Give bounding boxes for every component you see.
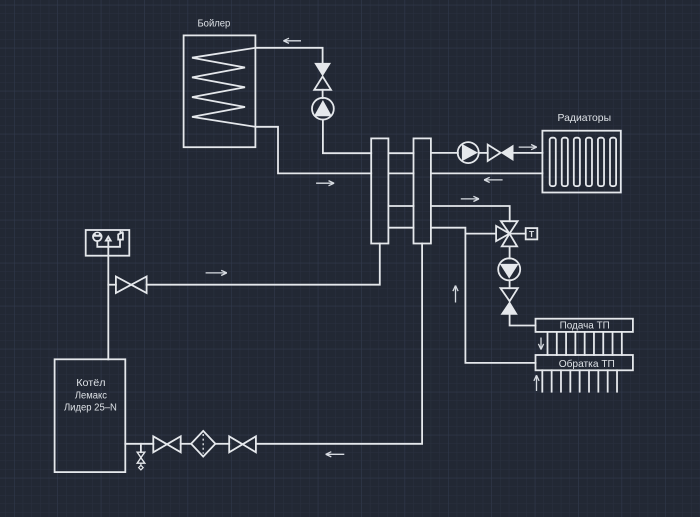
flow arrow (up) on floor return riser bbox=[453, 286, 458, 303]
flow arrow (right) on fill line bbox=[206, 270, 227, 275]
wire valve V2 to radiator bbox=[514, 152, 543, 154]
wire branch to fill valve bbox=[108, 284, 116, 286]
supply manifold outlets bbox=[548, 332, 622, 355]
wire separator to floor return drop bbox=[431, 228, 536, 363]
flow arrow (up) at return manifold bbox=[534, 375, 539, 391]
pump P2 circle bbox=[458, 142, 479, 163]
svg-text:Радиаторы: Радиаторы bbox=[558, 113, 612, 124]
safety valve arrow bbox=[106, 237, 111, 247]
label boiler unit "Котёл Лемакс Лидер 25-N" bbox=[64, 378, 117, 413]
flow arrow (down) at supply manifold bbox=[538, 338, 543, 350]
svg-text:Лидер 25–N: Лидер 25–N bbox=[64, 402, 117, 413]
wire valve V3 to supply manifold bbox=[510, 315, 536, 326]
safety group box bbox=[86, 230, 130, 256]
three-way mixing valve left port bbox=[496, 226, 509, 241]
valve V3 top half (hollow) bbox=[501, 288, 518, 301]
flow arrow (right) to radiator bbox=[519, 145, 537, 150]
hydraulic separator right vessel bbox=[414, 138, 431, 243]
label radiators "Радиаторы" bbox=[558, 113, 612, 124]
valve V2 right half (filled) bbox=[501, 145, 514, 161]
wire pump P3 to valve V3 bbox=[509, 280, 511, 288]
hydraulic separator left vessel bbox=[371, 138, 388, 243]
flow arrow (right) below lower boiler wire bbox=[316, 181, 334, 186]
pump P3 circle bbox=[498, 258, 520, 280]
wire pump P1 down then right to separator left vessel bbox=[323, 120, 371, 154]
wire radiator return to separator bbox=[431, 172, 543, 174]
drain valve spout diamond bbox=[139, 463, 144, 470]
three-way mixing valve top port bbox=[501, 221, 518, 233]
valve V1 bottom half (hollow) bbox=[314, 76, 331, 89]
wire boiler top outlet to valve bbox=[255, 48, 322, 63]
svg-text:Котёл: Котёл bbox=[76, 378, 106, 389]
safety group internal piping bbox=[97, 240, 120, 247]
separator connector pipe 3 bbox=[388, 205, 413, 207]
svg-text:Обратка ТП: Обратка ТП bbox=[559, 358, 615, 370]
flow arrow (left) on radiator return bbox=[484, 177, 503, 182]
return manifold box "Обратка ТП" bbox=[536, 355, 633, 370]
return manifold inlets bbox=[542, 370, 617, 391]
pump P3 impeller (filled triangle down) bbox=[500, 264, 519, 279]
label boiler "Бойлер" bbox=[197, 18, 230, 29]
valve V1 top half (filled) bbox=[314, 63, 331, 77]
valve V2 left half (hollow) bbox=[488, 145, 501, 161]
boiler heat-exchanger coil bbox=[192, 48, 255, 127]
wire boiler unit return line segment 1 bbox=[125, 443, 153, 445]
valve V3 bottom half (filled) bbox=[501, 301, 518, 315]
flow arrow (left) above boiler top wire bbox=[283, 38, 301, 43]
drain valve body bbox=[137, 452, 145, 463]
pressure gauge bbox=[93, 233, 102, 242]
wire mixing valve to pump P3 bbox=[509, 246, 511, 258]
wire valve to thermostat bbox=[510, 233, 526, 235]
wire separator to mixing valve (supply) bbox=[431, 206, 510, 221]
svg-text:Подача ТП: Подача ТП bbox=[560, 321, 610, 332]
wire fill valve to separator left vessel outlet bbox=[147, 244, 380, 285]
thermostat box T bbox=[526, 228, 538, 239]
mud filter (diamond with dashed screen) bbox=[191, 431, 215, 457]
fill valve right half (hollow) bbox=[131, 277, 146, 294]
pump P2 impeller (filled triangle right) bbox=[462, 144, 478, 161]
wire pump P2 to valve V2 bbox=[479, 152, 488, 154]
flow arrow (left) on boiler return bbox=[326, 452, 345, 457]
supply manifold box "Подача ТП" bbox=[536, 319, 633, 332]
wire return line to separator right vessel bbox=[256, 244, 422, 444]
air vent bbox=[118, 232, 123, 240]
svg-text:Бойлер: Бойлер bbox=[197, 18, 230, 29]
wire branch to mixing valve left port bbox=[465, 233, 496, 235]
shutoff valve B1 bbox=[153, 436, 180, 452]
wire filter to valve B2 bbox=[215, 443, 229, 445]
radiator body bbox=[542, 131, 620, 193]
boiler unit box bbox=[55, 359, 126, 472]
separator connector pipe 1 bbox=[388, 152, 413, 154]
wire B1 to filter bbox=[181, 443, 191, 445]
boiler tank rectangle bbox=[184, 35, 256, 147]
three-way mixing valve bottom port bbox=[502, 234, 517, 247]
svg-text:T: T bbox=[529, 229, 535, 239]
wire safety group down to boiler unit bbox=[107, 247, 109, 359]
flow arrow (right) on floor supply bbox=[461, 196, 479, 201]
fill valve left half (hollow) bbox=[116, 277, 131, 294]
svg-text:Лемакс: Лемакс bbox=[75, 390, 107, 401]
pump P1 impeller (filled triangle up) bbox=[314, 100, 332, 116]
separator connector pipe 4 bbox=[388, 227, 413, 229]
wire separator to radiator pump bbox=[431, 152, 458, 154]
drain valve stub bbox=[140, 444, 142, 452]
shutoff valve B2 bbox=[229, 436, 256, 452]
wire boiler lower outlet to separator left vessel bbox=[255, 127, 371, 174]
radiator sections bbox=[550, 138, 616, 186]
separator connector pipe 2 bbox=[388, 172, 413, 174]
pump P1 circle bbox=[312, 98, 334, 120]
wire valve V1 to pump P1 bbox=[322, 90, 324, 98]
